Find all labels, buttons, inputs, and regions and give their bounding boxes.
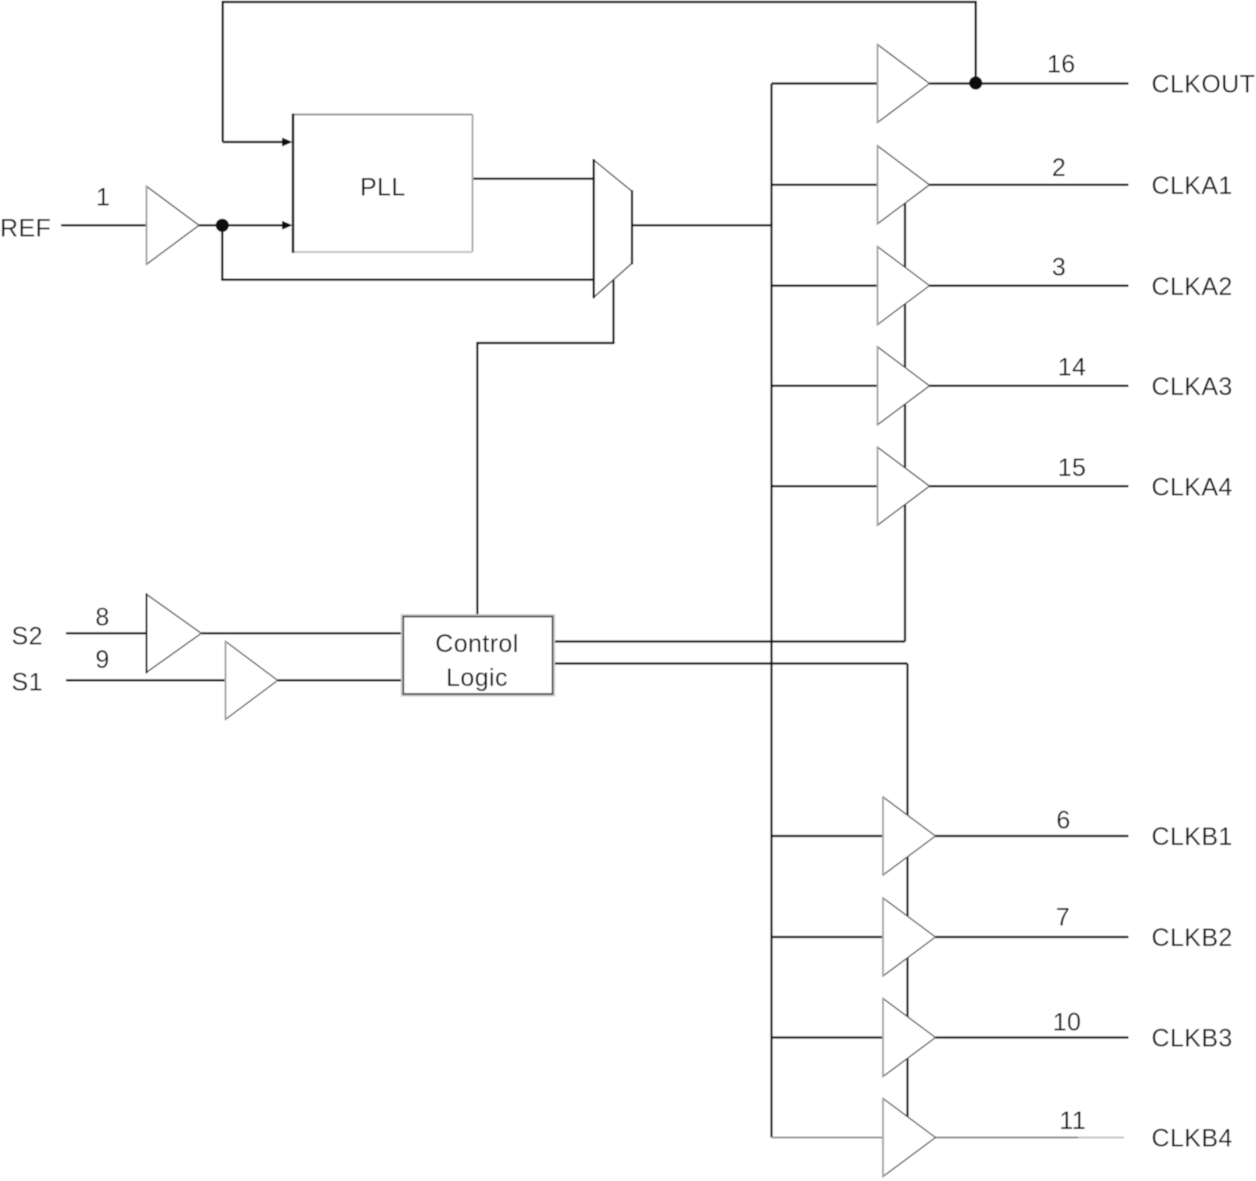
svg-text:14: 14 [1058, 354, 1087, 382]
svg-text:CLKB3: CLKB3 [1152, 1025, 1233, 1053]
svg-text:6: 6 [1056, 806, 1070, 834]
svg-text:CLKB4: CLKB4 [1152, 1125, 1233, 1153]
svg-text:15: 15 [1058, 454, 1087, 482]
svg-text:S1: S1 [12, 668, 43, 696]
svg-text:9: 9 [95, 646, 109, 674]
svg-text:7: 7 [1056, 904, 1070, 932]
svg-text:CLKA3: CLKA3 [1152, 373, 1233, 401]
svg-text:10: 10 [1053, 1009, 1082, 1037]
svg-text:11: 11 [1059, 1107, 1086, 1135]
svg-text:CLKA2: CLKA2 [1152, 273, 1233, 301]
svg-text:2: 2 [1052, 154, 1066, 182]
svg-text:CLKA4: CLKA4 [1152, 473, 1233, 501]
svg-text:Logic: Logic [446, 664, 508, 692]
svg-text:REF: REF [0, 215, 51, 243]
svg-text:CLKOUT: CLKOUT [1152, 71, 1256, 99]
svg-text:CLKA1: CLKA1 [1152, 172, 1233, 200]
svg-text:CLKB2: CLKB2 [1152, 924, 1233, 952]
svg-text:CLKB1: CLKB1 [1152, 823, 1233, 851]
svg-text:3: 3 [1052, 253, 1066, 281]
svg-text:16: 16 [1047, 51, 1076, 79]
svg-text:Control: Control [435, 630, 518, 658]
svg-text:1: 1 [96, 183, 110, 211]
svg-text:PLL: PLL [360, 174, 406, 202]
svg-text:8: 8 [95, 603, 109, 631]
svg-text:S2: S2 [12, 622, 43, 650]
